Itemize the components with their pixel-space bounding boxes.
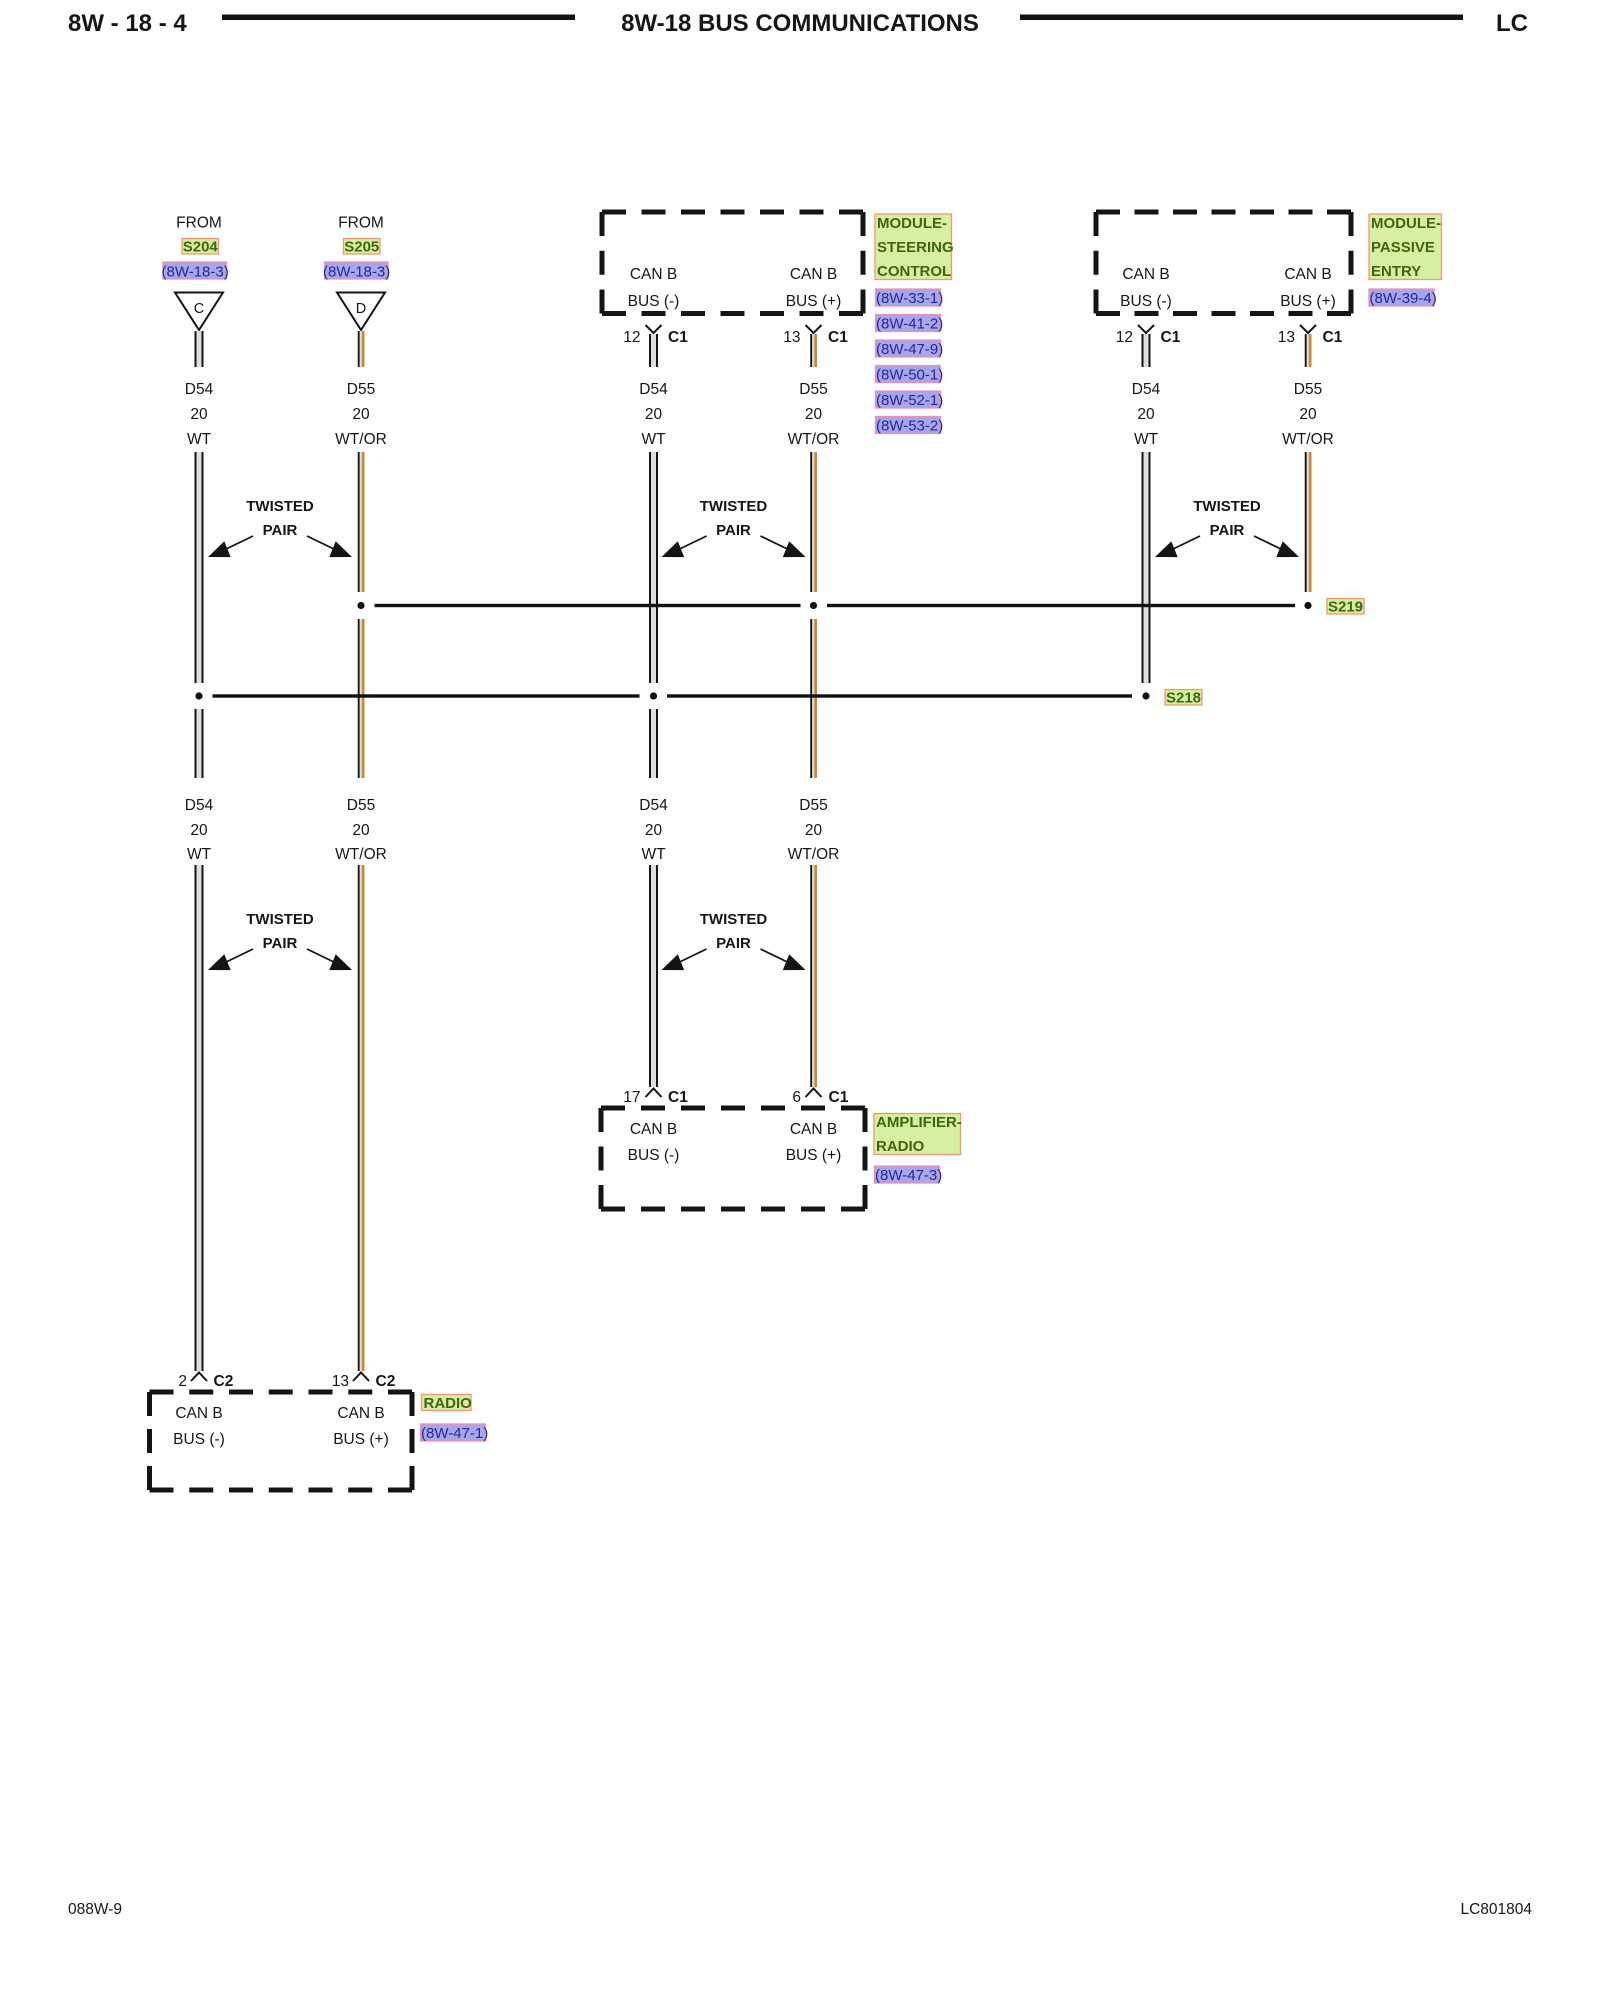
twisted pair callout cols A/B lower <box>208 911 352 970</box>
svg-text:LC801804: LC801804 <box>1460 1901 1532 1918</box>
pin 13 connector C1 steering <box>783 325 848 346</box>
svg-text:12: 12 <box>1116 329 1133 346</box>
module U2 passive entry dashed box <box>1096 212 1351 314</box>
svg-text:CONTROL: CONTROL <box>877 263 951 280</box>
pin label CAN B BUS (+) amplifier <box>786 1121 842 1164</box>
svg-text:MODULE-: MODULE- <box>1371 215 1441 232</box>
twisted pair callout cols A/B upper <box>208 498 352 557</box>
module U1 steering control dashed box <box>602 212 863 314</box>
wire label D55 20 WT/OR col D upper <box>788 381 840 448</box>
svg-text:C2: C2 <box>214 1373 234 1390</box>
svg-text:13: 13 <box>1278 329 1295 346</box>
page reference (8W-53-2) <box>876 417 944 435</box>
junction dot S219 col D <box>810 602 817 609</box>
svg-text:FROM: FROM <box>338 215 384 232</box>
twisted pair callout cols E/F upper <box>1155 498 1299 557</box>
splice label S218 <box>1165 690 1202 707</box>
svg-text:(8W-50-1): (8W-50-1) <box>876 367 943 384</box>
wire D54 col E segment 2 <box>1142 452 1151 683</box>
pin label CAN B BUS (+) steering <box>786 266 842 310</box>
svg-text:C1: C1 <box>1323 329 1343 346</box>
wire D55 col F stub <box>1305 334 1312 367</box>
wire D55 col D stub <box>810 334 817 367</box>
svg-text:(8W-41-2): (8W-41-2) <box>876 316 943 333</box>
svg-text:20: 20 <box>1299 406 1317 423</box>
svg-text:D54: D54 <box>1132 381 1161 398</box>
wire label D54 20 WT col C upper <box>639 381 668 448</box>
svg-text:D54: D54 <box>185 797 214 814</box>
wire label D55 20 WT/OR col B upper <box>335 381 387 448</box>
svg-text:LC: LC <box>1496 10 1528 37</box>
off-page connector triangle C <box>175 293 223 331</box>
wire label D54 20 WT col C lower <box>639 797 668 863</box>
svg-text:BUS (-): BUS (-) <box>173 1431 225 1448</box>
wire label D54 20 WT col E <box>1132 381 1161 448</box>
svg-text:20: 20 <box>805 406 823 423</box>
svg-text:2: 2 <box>178 1373 187 1390</box>
wire D55 col B segment 2 <box>358 452 365 592</box>
svg-text:WT: WT <box>641 846 666 863</box>
svg-text:CAN B: CAN B <box>175 1405 222 1422</box>
svg-text:C2: C2 <box>376 1373 396 1390</box>
svg-text:D55: D55 <box>799 381 827 398</box>
pin label CAN B BUS (-) steering <box>628 266 680 310</box>
svg-text:AMPLIFIER-: AMPLIFIER- <box>876 1114 962 1131</box>
svg-text:20: 20 <box>352 822 370 839</box>
page reference (8W-52-1) <box>876 391 944 409</box>
svg-text:MODULE-: MODULE- <box>877 215 947 232</box>
svg-text:(8W-53-2): (8W-53-2) <box>876 418 943 435</box>
junction dot S218 col E <box>1142 692 1149 699</box>
label MODULE-STEERING CONTROL <box>875 214 954 280</box>
wire label D55 20 WT/OR col B lower <box>335 797 387 863</box>
svg-text:6: 6 <box>792 1089 801 1106</box>
svg-text:S218: S218 <box>1166 690 1201 707</box>
svg-text:CAN B: CAN B <box>337 1405 384 1422</box>
svg-text:(8W-47-3): (8W-47-3) <box>875 1167 942 1184</box>
svg-text:(8W-39-4): (8W-39-4) <box>1370 290 1437 307</box>
svg-text:BUS (-): BUS (-) <box>628 1147 680 1164</box>
svg-text:WT/OR: WT/OR <box>788 431 840 448</box>
module U3 amplifier-radio dashed box <box>601 1108 865 1209</box>
pin label CAN B BUS (-) passive entry <box>1120 266 1172 310</box>
wire D55 col B stub <box>358 331 365 367</box>
svg-text:WT: WT <box>187 846 212 863</box>
svg-text:CAN B: CAN B <box>1122 266 1169 283</box>
svg-text:8W - 18 - 4: 8W - 18 - 4 <box>68 10 187 37</box>
page reference (8W-47-9) <box>876 340 944 358</box>
svg-text:20: 20 <box>352 406 370 423</box>
module U4 radio dashed box <box>150 1392 413 1490</box>
svg-text:RADIO: RADIO <box>424 1395 473 1412</box>
svg-text:D54: D54 <box>639 381 668 398</box>
svg-text:17: 17 <box>623 1089 640 1106</box>
wire D54 col A segment 4 <box>195 865 204 1371</box>
pin label CAN B BUS (+) passive entry <box>1280 266 1336 310</box>
svg-text:(8W-18-3): (8W-18-3) <box>323 264 390 281</box>
splice label S219 <box>1327 599 1364 616</box>
svg-text:D: D <box>356 301 366 317</box>
splice reference S204 <box>182 239 219 256</box>
pin 2 connector C2 radio <box>178 1373 233 1391</box>
svg-text:20: 20 <box>190 406 208 423</box>
page reference (8W-33-1) <box>876 289 944 307</box>
svg-text:D54: D54 <box>639 797 668 814</box>
bus wire S219 segment left <box>375 604 801 607</box>
svg-text:13: 13 <box>332 1373 349 1390</box>
svg-text:(8W-52-1): (8W-52-1) <box>876 392 943 409</box>
svg-text:BUS (+): BUS (+) <box>333 1431 389 1448</box>
off-page connector triangle D <box>337 293 385 331</box>
svg-text:S205: S205 <box>344 239 379 256</box>
bus wire S218 segment right <box>667 694 1132 697</box>
svg-text:C1: C1 <box>828 329 848 346</box>
wire D55 col B segment 3 <box>358 619 365 778</box>
svg-text:WT: WT <box>187 431 212 448</box>
svg-text:(8W-47-1): (8W-47-1) <box>421 1425 488 1442</box>
twisted pair callout cols C/D lower <box>662 911 806 970</box>
svg-text:C1: C1 <box>1161 329 1181 346</box>
svg-text:BUS (-): BUS (-) <box>628 293 680 310</box>
page reference (8W-47-3) <box>875 1166 943 1184</box>
svg-text:WT/OR: WT/OR <box>1282 431 1334 448</box>
pin label CAN B BUS (-) amplifier <box>628 1121 680 1164</box>
svg-text:20: 20 <box>805 822 823 839</box>
bus wire S218 segment left <box>213 694 640 697</box>
svg-text:20: 20 <box>645 406 663 423</box>
page reference (8W-41-2) <box>876 315 944 333</box>
twisted pair callout cols C/D upper <box>662 498 806 557</box>
svg-text:BUS (+): BUS (+) <box>786 1147 842 1164</box>
pin 12 connector C1 steering <box>623 325 688 346</box>
page reference (8W-50-1) <box>876 366 944 384</box>
pin label CAN B BUS (+) radio <box>333 1405 389 1448</box>
svg-text:20: 20 <box>645 822 663 839</box>
junction dot S219 col B <box>357 602 364 609</box>
wire D54 col C segment 4 <box>649 865 658 1087</box>
svg-text:(8W-47-9): (8W-47-9) <box>876 341 943 358</box>
svg-text:CAN B: CAN B <box>790 1121 837 1138</box>
svg-text:12: 12 <box>623 329 640 346</box>
svg-text:D55: D55 <box>1294 381 1322 398</box>
svg-text:S219: S219 <box>1328 599 1363 616</box>
wire D55 col B segment 4 <box>358 865 365 1371</box>
svg-text:FROM: FROM <box>176 215 222 232</box>
svg-text:D55: D55 <box>799 797 827 814</box>
svg-text:ENTRY: ENTRY <box>1371 263 1421 280</box>
wire D55 col D segment 2 <box>810 452 817 592</box>
svg-text:PASSIVE: PASSIVE <box>1371 239 1435 256</box>
wire D55 col D segment 4 <box>810 865 817 1087</box>
junction dot S218 col C <box>650 692 657 699</box>
wire D54 col A segment 2 <box>195 452 204 683</box>
svg-text:C1: C1 <box>668 329 688 346</box>
svg-text:WT/OR: WT/OR <box>335 431 387 448</box>
svg-text:C: C <box>194 301 204 317</box>
svg-text:C1: C1 <box>668 1089 688 1106</box>
wire label D55 20 WT/OR col D lower <box>788 797 840 863</box>
wire label D55 20 WT/OR col F <box>1282 381 1334 448</box>
pin 6 connector C1 amplifier <box>792 1089 848 1107</box>
svg-text:(8W-18-3): (8W-18-3) <box>162 264 229 281</box>
svg-text:13: 13 <box>783 329 800 346</box>
page reference (8W-18-3) col A <box>162 262 229 281</box>
svg-text:C1: C1 <box>829 1089 849 1106</box>
wire D55 col F segment 2 <box>1305 452 1312 592</box>
svg-text:BUS (+): BUS (+) <box>786 293 842 310</box>
wire D54 col A stub <box>195 331 204 367</box>
pin 17 connector C1 amplifier <box>623 1089 688 1107</box>
svg-text:(8W-33-1): (8W-33-1) <box>876 290 943 307</box>
wire label D54 20 WT col A upper <box>185 381 214 448</box>
svg-text:D55: D55 <box>347 381 375 398</box>
svg-text:BUS (+): BUS (+) <box>1280 293 1336 310</box>
header rule left <box>222 15 575 21</box>
pin 13 connector C1 passive entry <box>1278 325 1343 346</box>
pin label CAN B BUS (-) radio <box>173 1405 225 1448</box>
svg-text:WT/OR: WT/OR <box>788 846 840 863</box>
header rule right <box>1020 15 1463 21</box>
bus wire S219 segment right <box>827 604 1295 607</box>
wire D54 col E stub <box>1142 334 1151 367</box>
svg-text:D54: D54 <box>185 381 214 398</box>
pin 13 connector C2 radio <box>332 1373 396 1391</box>
wire D54 col C segment 2 <box>649 452 658 683</box>
svg-text:RADIO: RADIO <box>876 1138 925 1155</box>
splice reference S205 <box>344 239 381 256</box>
svg-text:STEERING: STEERING <box>877 239 954 256</box>
label MODULE-PASSIVE ENTRY <box>1369 214 1442 280</box>
wire D55 col D segment 3 <box>810 619 817 778</box>
svg-text:D55: D55 <box>347 797 375 814</box>
svg-text:WT: WT <box>1134 431 1159 448</box>
wire D54 col C stub <box>649 334 658 367</box>
page reference (8W-18-3) col B <box>323 262 390 281</box>
svg-text:WT: WT <box>641 431 666 448</box>
svg-text:WT/OR: WT/OR <box>335 846 387 863</box>
junction dot S219 col F <box>1304 602 1311 609</box>
label AMPLIFIER-RADIO <box>874 1114 962 1156</box>
junction dot S218 col A <box>195 692 202 699</box>
svg-text:BUS (-): BUS (-) <box>1120 293 1172 310</box>
wire D54 col C segment 3 <box>649 709 658 778</box>
page reference (8W-39-4) <box>1369 289 1437 307</box>
svg-text:8W-18 BUS COMMUNICATIONS: 8W-18 BUS COMMUNICATIONS <box>621 10 979 37</box>
page reference (8W-47-1) <box>421 1424 489 1442</box>
pin 12 connector C1 passive entry <box>1116 325 1181 346</box>
svg-text:CAN B: CAN B <box>790 266 837 283</box>
svg-text:CAN B: CAN B <box>630 266 677 283</box>
svg-text:20: 20 <box>1137 406 1155 423</box>
wire D54 col A segment 3 <box>195 709 204 778</box>
wire label D54 20 WT col A lower <box>185 797 214 863</box>
label RADIO <box>422 1395 473 1413</box>
svg-text:20: 20 <box>190 822 208 839</box>
svg-text:CAN B: CAN B <box>630 1121 677 1138</box>
svg-text:S204: S204 <box>183 239 219 256</box>
svg-text:CAN B: CAN B <box>1284 266 1331 283</box>
svg-text:088W-9: 088W-9 <box>68 1901 122 1918</box>
